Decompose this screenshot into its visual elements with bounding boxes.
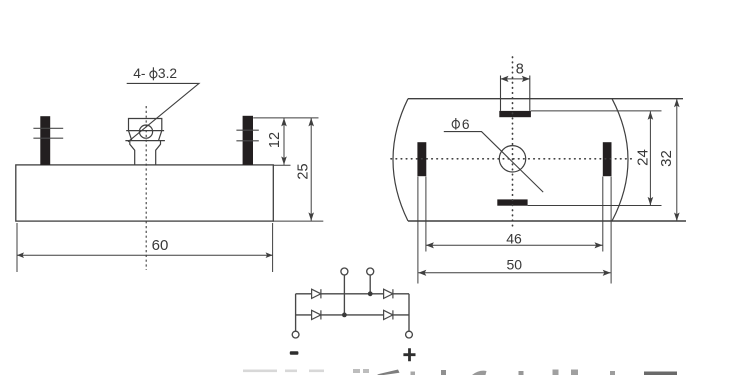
diode D1 (top left) (312, 289, 321, 298)
center hole circle (499, 146, 525, 172)
boss hole circle (139, 125, 152, 138)
glyph mark g (610, 371, 615, 375)
body bottom extension to right (273, 220, 323, 222)
centerline left view (dashed) (145, 106, 147, 270)
AC terminal circle left (341, 268, 348, 275)
dim 32 line and arrows (674, 99, 680, 221)
dim 24 line and arrows (648, 111, 654, 205)
faint stroke group 2 (353, 369, 360, 373)
bottom bar extension line right (528, 205, 662, 207)
horizontal centerline (dotted) (391, 158, 634, 160)
minus sign label (290, 351, 299, 355)
glyph mark h (wide bar) (644, 372, 677, 375)
terminal left hole lines (33, 128, 63, 138)
diode D2 (top right) (384, 289, 393, 298)
glyph mark c (curl) (472, 371, 487, 375)
faint stroke group 1 (243, 370, 277, 373)
dim 12 line and arrows (281, 118, 287, 165)
bottom rail wire (296, 314, 409, 316)
outline top edge with 32 extension (408, 98, 683, 100)
svg-text:32: 32 (658, 150, 675, 167)
terminal tab left (black) (40, 116, 50, 165)
dim 25 line and arrows (308, 118, 314, 221)
AC1 wire (343, 275, 345, 315)
vertical centerline (dotted) (512, 57, 514, 227)
right drop wire (408, 294, 410, 331)
phi6 label (452, 117, 470, 132)
outline bottom edge with 32 extension (408, 220, 686, 222)
leader line for 4-phi3.2 (127, 83, 199, 141)
glyph mark e (553, 370, 559, 375)
svg-text:25: 25 (296, 163, 312, 179)
junction dot AC1/bottom rail (342, 313, 347, 318)
tab sides (8mm) (501, 76, 530, 111)
svg-text:50: 50 (507, 256, 523, 272)
diode D3 (bottom left) (312, 310, 321, 319)
minus terminal circle (292, 331, 299, 338)
mounting boss outline (125, 119, 164, 165)
right terminal bar top view (black) (603, 142, 612, 176)
extension lines below side bars (418, 177, 611, 284)
label 4-phi3.2 (133, 66, 177, 81)
dim 50 line and arrows (418, 270, 610, 276)
phi6 leader line (444, 132, 543, 193)
diode D4 (bottom right) (384, 310, 393, 319)
bottom terminal bar (black) (497, 199, 527, 205)
plus terminal circle (406, 331, 413, 338)
terminal right hole lines (236, 130, 258, 141)
top terminal bar (black) (499, 111, 531, 117)
glyph mark b (441, 370, 446, 375)
outline left arc (393, 99, 408, 221)
svg-text:4-: 4- (133, 66, 145, 81)
dim 46 line and arrows (426, 242, 603, 248)
body outline (16, 165, 274, 221)
AC terminal circle right (367, 268, 374, 275)
dark wedge glyph top (377, 370, 400, 375)
dim 60 line and arrows (17, 252, 273, 258)
svg-text:3.2: 3.2 (158, 66, 177, 81)
left drop wire (295, 294, 297, 331)
glyph mark a (411, 372, 416, 375)
glyph mark f (571, 370, 578, 375)
svg-text:46: 46 (506, 230, 522, 246)
AC2 wire (369, 275, 371, 294)
dim 8 line and arrows (501, 76, 530, 82)
svg-text:24: 24 (634, 149, 651, 166)
top bar extension line right (531, 110, 662, 112)
top rail wire (296, 293, 409, 295)
plus sign label (403, 348, 415, 361)
outline right arc (612, 99, 628, 221)
junction dot AC2/top rail (368, 291, 373, 296)
svg-text:6: 6 (462, 117, 470, 132)
glyph mark d (519, 371, 524, 375)
svg-text:12: 12 (267, 132, 283, 148)
left terminal bar top view (black) (417, 142, 426, 176)
terminal tab right (black) (243, 116, 253, 165)
dim 60 extension lines down (17, 223, 273, 272)
dim 12 extension lines (253, 118, 318, 165)
svg-text:8: 8 (516, 61, 524, 77)
svg-text:60: 60 (152, 237, 169, 254)
